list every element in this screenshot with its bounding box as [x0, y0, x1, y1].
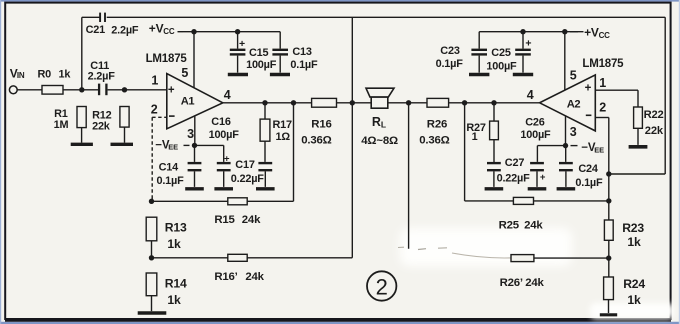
svg-text:R0: R0	[38, 69, 52, 81]
svg-text:3: 3	[187, 127, 194, 141]
svg-text:0.1µF: 0.1µF	[290, 59, 318, 71]
svg-text:L: L	[381, 120, 386, 130]
svg-text:+: +	[585, 82, 592, 94]
op-amp A1	[167, 74, 223, 129]
node R25 junction	[606, 198, 611, 203]
svg-text:24k: 24k	[242, 214, 261, 226]
wire R0 to node A	[63, 89, 99, 91]
resistor R27	[466, 121, 498, 143]
label LM1875 (A2)	[582, 58, 624, 70]
node R27 tap	[491, 100, 496, 105]
wire right side to A2 inverting node	[609, 173, 665, 175]
pin 5 label (A2)	[570, 68, 577, 82]
node pin3/-Vee (A1)	[192, 143, 197, 148]
capacitor C11	[88, 60, 116, 95]
svg-text:1: 1	[599, 76, 606, 90]
blue page border (right)	[678, 0, 680, 324]
node pin3/-Vee (A2)	[563, 143, 568, 148]
wire pin 2 of A1 (dashed)	[152, 117, 167, 201]
label -Vee (left)	[155, 139, 189, 151]
pin 3 label (A2)	[570, 125, 577, 139]
svg-text:R26’: R26’	[500, 277, 523, 289]
input terminal VIN	[9, 67, 25, 94]
wire node A up to C21	[81, 17, 83, 90]
resistor R26'	[500, 255, 545, 289]
wire pin 1 of A2 to R22	[595, 90, 638, 107]
pin 1 label (A1)	[151, 73, 158, 87]
svg-text:0.36Ω: 0.36Ω	[301, 135, 331, 147]
resistor R24	[604, 277, 646, 307]
svg-text:0.1µF: 0.1µF	[436, 58, 464, 70]
wire A2 inv node down to R25 node	[608, 174, 610, 220]
svg-text:R22: R22	[644, 109, 664, 121]
figure number circle 2	[367, 271, 396, 300]
wire +Vcc rail corner to C13	[279, 32, 281, 49]
svg-text:A2: A2	[567, 99, 581, 111]
svg-text:R: R	[372, 115, 381, 129]
svg-text:R26: R26	[427, 118, 447, 130]
capacitor C15	[230, 32, 277, 73]
wire R16' to speaker-left column	[247, 257, 352, 259]
wire pin 5 of A1	[193, 32, 195, 88]
pin 1 label (A2)	[599, 76, 606, 90]
svg-text:C21: C21	[86, 24, 106, 36]
svg-text:1Ω: 1Ω	[276, 131, 291, 143]
svg-text:C24: C24	[578, 163, 598, 175]
label LM1875 (A1)	[146, 53, 188, 65]
svg-text:C26: C26	[525, 117, 545, 129]
wire R16 to speaker left node	[337, 102, 372, 104]
pin 3 label (A1)	[187, 127, 194, 141]
svg-text:1k: 1k	[167, 237, 181, 251]
svg-text:24k: 24k	[525, 277, 544, 289]
node R15/R13 junction	[149, 199, 154, 204]
node C15 top	[235, 29, 240, 34]
ground (R12)	[111, 143, 134, 146]
svg-text:3: 3	[570, 125, 577, 139]
pin 2 label (A2)	[599, 100, 606, 114]
ground (C27)	[485, 187, 504, 190]
wire R24 to ground	[608, 300, 610, 313]
svg-text:0.22µF: 0.22µF	[231, 173, 264, 185]
wire R15 to output tap	[247, 103, 293, 202]
resistor R12	[92, 107, 129, 133]
svg-text:R14: R14	[165, 277, 187, 291]
ground (C15)	[228, 73, 248, 77]
wire R26' to node	[534, 257, 609, 259]
resistor R1	[54, 107, 87, 131]
wire R17 to C17	[264, 141, 266, 162]
wire +Vcc rail (left)	[183, 31, 280, 33]
resistor R23	[604, 220, 644, 249]
svg-text:R16’: R16’	[214, 271, 237, 283]
svg-text:1: 1	[472, 131, 478, 143]
op-amp A2	[540, 75, 596, 131]
wire node B to op-amp A1 pin 1	[125, 89, 167, 91]
svg-text:1k: 1k	[167, 293, 181, 307]
svg-text:5: 5	[570, 68, 577, 82]
wire +Vcc rail (right)	[479, 31, 583, 33]
ground (C23)	[469, 73, 489, 77]
ground (C24)	[557, 187, 576, 190]
blue page border (top)	[0, 0, 680, 2]
svg-text:2.2µF: 2.2µF	[111, 25, 139, 37]
wire node to R16'	[152, 257, 228, 259]
svg-text:+: +	[168, 84, 175, 96]
capacitor C23	[436, 45, 487, 73]
svg-text:C17: C17	[235, 159, 255, 171]
svg-text:1k: 1k	[627, 235, 641, 249]
svg-text:24k: 24k	[245, 271, 264, 283]
svg-text:CC: CC	[599, 31, 611, 40]
capacitor C26	[520, 117, 551, 187]
svg-text:C25: C25	[491, 47, 511, 59]
white smudge patch (bottom right)	[590, 303, 674, 319]
resistor R22	[634, 107, 664, 137]
wire top line down right side	[664, 17, 666, 174]
node R17 tap	[262, 100, 267, 105]
svg-text:R24: R24	[623, 277, 645, 291]
svg-text:2: 2	[599, 100, 606, 114]
svg-text:24k: 24k	[524, 220, 543, 232]
svg-text:C23: C23	[440, 45, 460, 57]
wire pin 3 of A2	[565, 116, 567, 145]
capacitor C13	[272, 46, 318, 73]
svg-text:0.1µF: 0.1µF	[157, 175, 185, 187]
svg-text:100µF: 100µF	[520, 129, 551, 141]
svg-text:22k: 22k	[92, 120, 111, 132]
node +Vcc / pin5 (A2)	[562, 29, 567, 34]
svg-text:0.36Ω: 0.36Ω	[419, 135, 449, 147]
wire tap to R25	[465, 200, 514, 202]
svg-text:R23: R23	[622, 221, 644, 235]
svg-text:4Ω~8Ω: 4Ω~8Ω	[361, 135, 398, 147]
svg-text:+: +	[525, 38, 531, 50]
pin 4 label (A2)	[527, 88, 534, 102]
node speaker left	[350, 100, 355, 105]
wire pin 3 of A1	[194, 116, 196, 145]
svg-text:100µF: 100µF	[246, 59, 277, 71]
svg-text:C16: C16	[211, 116, 231, 128]
wire R22 to ground	[637, 128, 639, 145]
svg-text:C15: C15	[249, 47, 269, 59]
svg-text:A1: A1	[181, 95, 195, 107]
wire R25 tap down	[464, 103, 466, 201]
resistor R0	[38, 69, 72, 95]
node R25 feedback tap	[462, 100, 467, 105]
ground (R1)	[71, 143, 93, 146]
node R15 feedback tap	[291, 100, 296, 105]
ground (C25)	[513, 73, 533, 77]
label -Vee (right)	[571, 142, 605, 154]
svg-text:CC: CC	[163, 27, 175, 36]
wire R13 to node	[151, 241, 153, 258]
node B (C11/R12/pin1 junction)	[122, 87, 127, 92]
wire VIN to R0	[17, 89, 42, 91]
faint erased marks	[398, 247, 511, 258]
resistor R17	[260, 119, 292, 143]
wire C21 across top to right side	[107, 16, 666, 18]
wire -Vee rail to C26	[537, 146, 565, 162]
wire rail corner down to C23	[478, 32, 480, 49]
resistor R14	[146, 273, 187, 307]
label +Vcc (left)	[149, 22, 183, 36]
capacitor C25	[486, 32, 531, 73]
wire R14 to ground	[151, 296, 153, 312]
ground (R24)	[600, 313, 617, 316]
speaker RL	[361, 88, 398, 147]
node R13/R14/R16' junction	[149, 255, 154, 260]
svg-text:1M: 1M	[54, 119, 69, 131]
node speaker right	[406, 100, 411, 105]
svg-text:C13: C13	[292, 46, 312, 58]
svg-text:2: 2	[151, 102, 158, 116]
svg-text:2.2µF: 2.2µF	[88, 71, 116, 83]
node C25 top	[520, 29, 525, 34]
wire A2 output to R27	[493, 103, 495, 121]
svg-text:2: 2	[376, 275, 388, 300]
ground (C13)	[270, 73, 290, 77]
wire pin 2 of A2	[595, 118, 609, 175]
wire speaker-left column (top line to R16')	[351, 17, 353, 257]
svg-text:100µF: 100µF	[209, 129, 240, 141]
svg-text:+: +	[239, 38, 245, 50]
svg-text:1k: 1k	[59, 69, 72, 81]
svg-text:5: 5	[181, 66, 188, 80]
resistor R16	[301, 98, 336, 146]
ground (C17)	[256, 187, 275, 190]
capacitor C16	[209, 116, 240, 187]
wire R23 to R26' node	[608, 240, 610, 277]
pin 4 label (A1)	[224, 88, 231, 102]
wire speaker-right column (erased below)	[408, 103, 410, 249]
wire R26 to A2 output	[449, 102, 540, 104]
resistor R26	[419, 98, 449, 146]
svg-text:C27: C27	[505, 157, 525, 169]
wire R12 to ground	[124, 127, 126, 143]
svg-text:R25: R25	[499, 220, 520, 232]
capacitor C21	[82, 13, 139, 37]
ground (R22)	[629, 145, 648, 149]
pin 2 label (A1)	[151, 102, 158, 116]
white smudge patch (center bottom)	[400, 228, 572, 266]
svg-text:IN: IN	[17, 71, 25, 80]
ground (C14)	[185, 187, 204, 190]
node +Vcc / pin5 (A1)	[191, 29, 196, 34]
wire speaker right to R26	[388, 102, 427, 104]
blue page border (bottom)	[0, 322, 680, 324]
blue page border (left)	[0, 0, 2, 324]
svg-text:+V: +V	[584, 26, 599, 40]
svg-text:C14: C14	[159, 161, 179, 173]
svg-text:0.22µF: 0.22µF	[497, 173, 530, 185]
node A2 inverting feedback corner	[606, 171, 611, 176]
label +Vcc (right)	[570, 26, 610, 40]
svg-text:1: 1	[151, 73, 158, 87]
svg-text:LM1875: LM1875	[582, 58, 624, 70]
svg-text:0.1µF: 0.1µF	[575, 177, 603, 189]
svg-text:R16: R16	[311, 118, 331, 130]
wire node to R15	[152, 200, 228, 202]
svg-text:+V: +V	[149, 22, 164, 36]
ground (R14)	[138, 311, 167, 315]
svg-text:EE: EE	[594, 146, 604, 155]
wire R27 to C27	[493, 140, 495, 163]
svg-text:1k: 1k	[627, 293, 641, 307]
svg-text:100µF: 100µF	[486, 61, 517, 73]
wire R25 to A2 inv column	[534, 200, 609, 202]
ground (C26)	[528, 187, 547, 190]
capacitor C14	[157, 145, 202, 187]
resistor R13	[146, 217, 187, 251]
svg-text:+: +	[224, 154, 230, 165]
wire -Vee rail to C16	[195, 145, 224, 162]
svg-text:+: +	[540, 172, 546, 183]
resistor R15	[214, 198, 261, 226]
resistor R25	[499, 197, 544, 231]
svg-text:R15: R15	[214, 214, 235, 226]
wire R1 to ground	[81, 128, 83, 143]
capacitor C24	[559, 146, 603, 189]
svg-text:4: 4	[224, 88, 231, 102]
svg-text:R17: R17	[273, 119, 293, 131]
wire A1 output to R17	[264, 103, 266, 119]
node A (R0/R1/C11/C21 junction)	[79, 87, 84, 92]
svg-text:22k: 22k	[645, 125, 664, 137]
ground (C16)	[214, 187, 233, 190]
node R26' junction	[606, 255, 611, 260]
svg-text:LM1875: LM1875	[146, 53, 188, 65]
wire C11 to node B	[108, 89, 125, 91]
wire A1 output rail	[223, 102, 312, 104]
capacitor C27	[487, 157, 530, 187]
wire pin 5 of A2	[564, 32, 566, 90]
capacitor C17	[231, 159, 272, 187]
resistor R16'	[214, 254, 264, 282]
pin 5 label (A1)	[181, 66, 188, 80]
svg-text:EE: EE	[168, 143, 178, 152]
svg-text:R13: R13	[165, 220, 187, 234]
svg-text:4: 4	[527, 88, 534, 102]
